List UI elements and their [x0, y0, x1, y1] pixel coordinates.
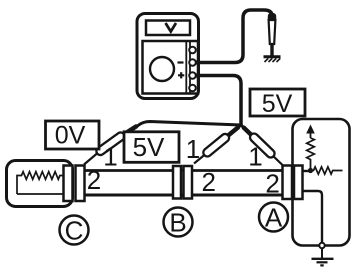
svg-text:1: 1 — [103, 142, 117, 172]
svg-text:5V: 5V — [133, 132, 165, 162]
svg-text:0V: 0V — [55, 122, 86, 150]
svg-text:5V: 5V — [262, 90, 293, 118]
svg-text:2: 2 — [87, 165, 101, 195]
svg-text:2: 2 — [265, 169, 279, 199]
svg-text:C: C — [65, 215, 84, 245]
svg-text:A: A — [265, 202, 283, 232]
svg-text:1: 1 — [186, 134, 200, 164]
svg-text:1: 1 — [248, 142, 262, 172]
svg-text:2: 2 — [201, 167, 215, 197]
svg-text:B: B — [169, 207, 186, 237]
